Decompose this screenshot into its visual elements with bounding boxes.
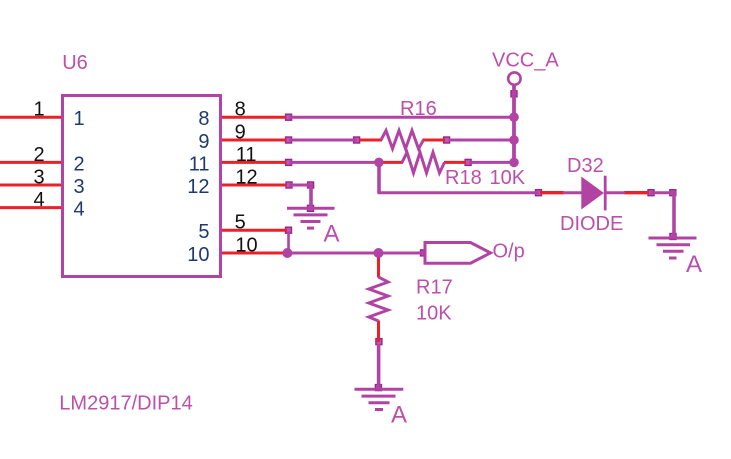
svg-text:12: 12 (235, 166, 257, 188)
svg-text:A: A (324, 220, 340, 247)
svg-text:A: A (686, 251, 702, 278)
svg-text:9: 9 (235, 121, 246, 143)
svg-text:R18: R18 (445, 167, 482, 189)
svg-text:R16: R16 (400, 98, 437, 120)
svg-text:10: 10 (187, 244, 209, 266)
svg-text:10: 10 (235, 234, 257, 256)
svg-text:1: 1 (74, 108, 85, 130)
svg-text:5: 5 (198, 221, 209, 243)
svg-text:LM2917/DIP14: LM2917/DIP14 (59, 392, 192, 414)
svg-text:3: 3 (33, 166, 44, 188)
svg-text:5: 5 (235, 212, 246, 234)
svg-text:11: 11 (189, 153, 210, 175)
svg-text:10K: 10K (416, 303, 452, 325)
svg-text:11: 11 (236, 144, 257, 166)
svg-text:8: 8 (198, 108, 209, 130)
svg-text:1: 1 (33, 99, 44, 121)
svg-text:2: 2 (33, 144, 44, 166)
svg-text:4: 4 (74, 199, 85, 221)
svg-text:8: 8 (235, 99, 246, 121)
svg-text:O/p: O/p (493, 241, 525, 263)
svg-text:3: 3 (74, 176, 85, 198)
svg-text:A: A (391, 401, 407, 428)
svg-text:R17: R17 (416, 277, 453, 299)
svg-text:VCC_A: VCC_A (492, 50, 559, 72)
svg-text:4: 4 (33, 189, 44, 211)
svg-text:DIODE: DIODE (560, 213, 623, 235)
svg-text:12: 12 (187, 176, 209, 198)
svg-text:D32: D32 (567, 155, 604, 177)
svg-text:10K: 10K (490, 167, 526, 189)
svg-text:2: 2 (74, 153, 85, 175)
svg-text:U6: U6 (62, 52, 88, 74)
svg-text:9: 9 (198, 131, 209, 153)
